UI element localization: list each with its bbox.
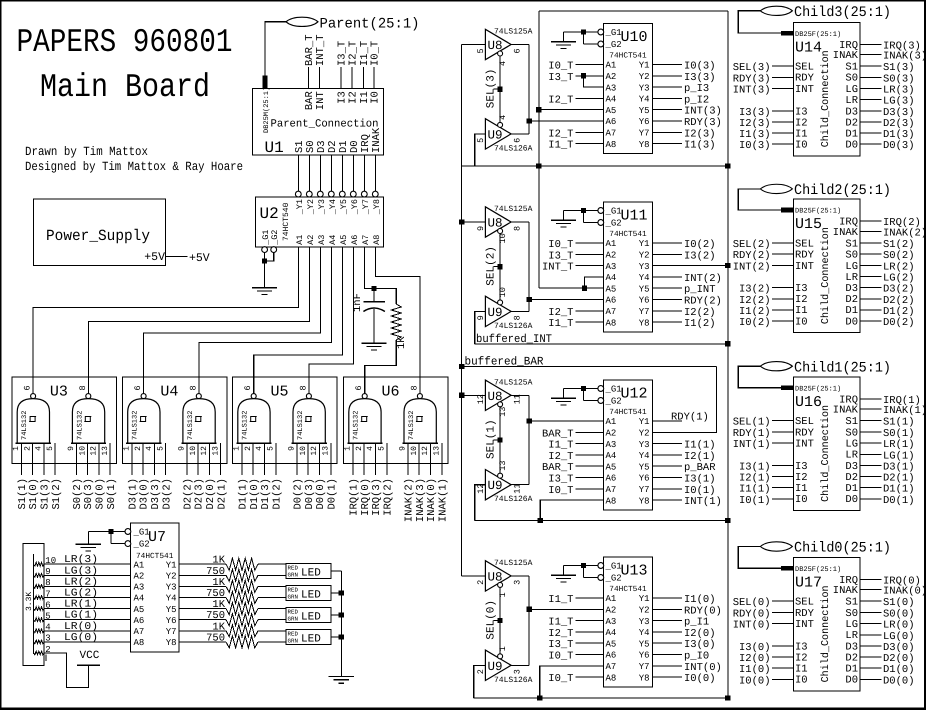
svg-text:I1_T: I1_T	[548, 594, 573, 606]
svg-text:p_I1: p_I1	[684, 617, 709, 629]
svg-text:Y8: Y8	[166, 638, 177, 648]
svg-text:D0(0): D0(0)	[883, 675, 915, 687]
svg-text:S0(3): S0(3)	[83, 478, 95, 510]
svg-text:A8: A8	[372, 235, 382, 245]
svg-text:Y5: Y5	[166, 605, 177, 615]
svg-text:S0(1): S0(1)	[883, 428, 915, 440]
svg-text:750: 750	[206, 632, 225, 644]
svg-text:SEL(2): SEL(2)	[733, 239, 771, 251]
svg-text:_G2: _G2	[270, 230, 280, 246]
svg-text:I0_T: I0_T	[548, 239, 573, 251]
svg-text:D1: D1	[845, 128, 858, 140]
svg-text:1: 1	[498, 646, 508, 651]
svg-text:I2(0): I2(0)	[684, 628, 716, 640]
svg-text:A6: A6	[606, 651, 617, 661]
svg-text:A4: A4	[606, 628, 617, 638]
svg-text:5: 5	[476, 138, 486, 143]
svg-text:6: 6	[513, 48, 523, 53]
svg-text:S1: S1	[845, 597, 858, 609]
svg-text:U2: U2	[260, 205, 279, 223]
svg-text:Y3: Y3	[639, 440, 650, 450]
svg-text:74HCT540: 74HCT540	[282, 202, 291, 241]
svg-text:LG(3): LG(3)	[883, 96, 915, 108]
svg-text:U3: U3	[50, 384, 68, 401]
svg-text:I1(0): I1(0)	[739, 664, 771, 676]
svg-text:_Y3: _Y3	[317, 199, 327, 215]
svg-text:10: 10	[410, 446, 419, 456]
svg-text:A8: A8	[606, 318, 617, 328]
svg-text:S0: S0	[845, 250, 858, 262]
svg-text:D1(2): D1(2)	[271, 478, 283, 510]
svg-text:D3(3): D3(3)	[150, 478, 162, 510]
svg-text:Y5: Y5	[639, 284, 650, 294]
svg-text:1: 1	[498, 592, 508, 597]
svg-text:Y1: Y1	[639, 594, 650, 604]
svg-text:5: 5	[378, 446, 387, 451]
svg-text:74LS132: 74LS132	[242, 411, 250, 440]
svg-text:_Y2: _Y2	[306, 199, 316, 215]
svg-text:D1(3): D1(3)	[260, 478, 272, 510]
svg-text:A7: A7	[606, 485, 617, 495]
svg-text:2: 2	[244, 446, 253, 451]
svg-text:_G2: _G2	[605, 40, 622, 50]
svg-text:INAK(2): INAK(2)	[883, 227, 926, 239]
svg-text:LG(2): LG(2)	[883, 273, 915, 285]
svg-text:I1(2): I1(2)	[739, 306, 771, 318]
svg-text:74LS126A: 74LS126A	[494, 676, 533, 685]
svg-text:_Y7: _Y7	[361, 199, 371, 215]
svg-text:Y5: Y5	[639, 462, 650, 472]
svg-text:S1(3): S1(3)	[40, 478, 52, 510]
svg-text:INT(3): INT(3)	[733, 85, 771, 97]
svg-text:I1: I1	[795, 128, 808, 140]
svg-text:SEL: SEL	[795, 597, 814, 609]
svg-text:p_INT: p_INT	[684, 284, 716, 296]
svg-text:LR: LR	[845, 95, 858, 107]
svg-text:D0(2): D0(2)	[883, 317, 915, 329]
svg-text:D1(0): D1(0)	[883, 664, 915, 676]
svg-text:U9: U9	[488, 660, 503, 674]
svg-text:S0(2): S0(2)	[72, 478, 84, 510]
svg-text:LED: LED	[301, 612, 321, 624]
svg-text:8: 8	[78, 385, 88, 390]
svg-text:I3(0): I3(0)	[684, 639, 716, 651]
svg-text:Y2: Y2	[639, 429, 650, 439]
svg-text:A3: A3	[606, 83, 617, 93]
svg-text:A8: A8	[606, 496, 617, 506]
svg-text:S0(0): S0(0)	[95, 478, 107, 510]
svg-text:INT: INT	[795, 619, 814, 631]
svg-text:A8: A8	[606, 140, 617, 150]
svg-text:RDY(2): RDY(2)	[684, 296, 722, 308]
svg-text:U6: U6	[382, 384, 400, 401]
svg-text:Y4: Y4	[639, 451, 650, 461]
svg-text:74LS126A: 74LS126A	[494, 495, 533, 504]
svg-text:12: 12	[476, 394, 486, 404]
svg-text:I0_T: I0_T	[548, 61, 573, 73]
svg-text:74LS132: 74LS132	[353, 411, 361, 440]
svg-text:S1(1): S1(1)	[17, 478, 29, 510]
svg-text:74LS132: 74LS132	[408, 411, 416, 440]
svg-text:RDY: RDY	[795, 73, 815, 85]
svg-text:INT: INT	[315, 91, 327, 110]
svg-text:S1(2): S1(2)	[51, 478, 63, 510]
svg-text:I1_T: I1_T	[548, 140, 573, 152]
svg-text:S0(2): S0(2)	[883, 250, 915, 262]
svg-text:_G1: _G1	[605, 562, 622, 572]
svg-text:11: 11	[513, 483, 523, 493]
svg-text:GRN: GRN	[288, 572, 299, 579]
svg-text:U13: U13	[621, 563, 648, 580]
svg-text:D3(1): D3(1)	[128, 478, 140, 510]
svg-text:Y3: Y3	[639, 83, 650, 93]
svg-text:INAK: INAK	[833, 227, 859, 239]
svg-text:I0(3): I0(3)	[684, 61, 716, 73]
svg-text:3.3K: 3.3K	[25, 592, 34, 611]
svg-text:A1: A1	[606, 594, 617, 604]
svg-text:LED: LED	[301, 590, 321, 602]
svg-text:I3_T: I3_T	[548, 72, 573, 84]
svg-text:S1(0): S1(0)	[28, 478, 40, 510]
svg-text:4: 4	[145, 446, 154, 451]
svg-text:I0_T: I0_T	[369, 41, 381, 66]
svg-text:A7: A7	[134, 627, 145, 637]
svg-text:A4: A4	[606, 95, 617, 105]
svg-text:U7: U7	[148, 529, 166, 546]
svg-text:S0(0): S0(0)	[883, 608, 915, 620]
svg-text:Y2: Y2	[639, 72, 650, 82]
svg-text:U9: U9	[488, 479, 503, 493]
svg-text:8: 8	[188, 385, 198, 390]
svg-text:I0_T: I0_T	[548, 485, 573, 497]
svg-text:S1: S1	[845, 416, 858, 428]
svg-text:A1: A1	[295, 235, 305, 245]
svg-text:D0(1): D0(1)	[326, 478, 338, 510]
svg-text:p_BAR: p_BAR	[684, 462, 716, 474]
svg-text:A2: A2	[606, 606, 617, 616]
svg-text:RDY(3): RDY(3)	[733, 73, 771, 85]
svg-text:_Y8: _Y8	[372, 199, 382, 215]
svg-text:I3(2): I3(2)	[684, 250, 716, 262]
svg-text:LED: LED	[301, 634, 321, 646]
svg-text:SEL: SEL	[795, 62, 814, 74]
svg-text:5: 5	[476, 48, 486, 53]
svg-text:RDY(2): RDY(2)	[733, 250, 771, 262]
svg-text:RED: RED	[288, 565, 299, 572]
svg-text:Y3: Y3	[639, 617, 650, 627]
svg-text:I0: I0	[795, 316, 808, 328]
svg-text:Y3: Y3	[166, 583, 177, 593]
svg-text:A3: A3	[134, 583, 145, 593]
svg-text:RDY: RDY	[795, 608, 815, 620]
svg-text:S1: S1	[845, 238, 858, 250]
svg-text:LR: LR	[845, 450, 858, 462]
svg-text:INAK: INAK	[833, 50, 859, 62]
svg-text:SEL(3): SEL(3)	[486, 69, 498, 109]
svg-text:A5: A5	[606, 639, 617, 649]
svg-text:74HCT541: 74HCT541	[609, 408, 647, 417]
svg-text:I1: I1	[795, 664, 808, 676]
svg-text:A1: A1	[606, 239, 617, 249]
svg-text:S0: S0	[845, 608, 858, 620]
svg-text:9: 9	[399, 446, 408, 451]
svg-text:INT(3): INT(3)	[684, 106, 722, 118]
svg-text:INT(1): INT(1)	[684, 496, 722, 508]
svg-text:I2(2): I2(2)	[684, 307, 716, 319]
svg-text:A4: A4	[606, 273, 617, 283]
svg-text:D1: D1	[845, 483, 858, 495]
svg-text:Y6: Y6	[639, 117, 650, 127]
svg-text:10: 10	[78, 446, 87, 456]
svg-text:RDY: RDY	[795, 250, 815, 262]
svg-text:12: 12	[421, 446, 430, 456]
svg-text:2: 2	[476, 580, 486, 585]
svg-text:INT_T: INT_T	[542, 262, 574, 274]
svg-text:_G2: _G2	[605, 397, 622, 407]
svg-text:Y4: Y4	[639, 628, 650, 638]
svg-text:A2: A2	[134, 572, 145, 582]
svg-text:S1(2): S1(2)	[883, 239, 915, 251]
svg-text:I3_T: I3_T	[548, 250, 573, 262]
svg-text:Child_Connection: Child_Connection	[820, 227, 832, 324]
svg-text:SEL(1): SEL(1)	[486, 419, 498, 459]
svg-text:DB25F(25:1): DB25F(25:1)	[795, 30, 841, 39]
svg-text:_G2: _G2	[605, 574, 622, 584]
svg-text:5: 5	[267, 446, 276, 451]
svg-text:A4: A4	[328, 235, 338, 245]
svg-text:A5: A5	[134, 605, 145, 615]
svg-text:INAK: INAK	[833, 405, 859, 417]
svg-text:Child0(25:1): Child0(25:1)	[794, 541, 891, 557]
svg-text:I1(0): I1(0)	[684, 594, 716, 606]
svg-text:74LS126A: 74LS126A	[494, 322, 533, 331]
svg-text:A1: A1	[606, 61, 617, 71]
svg-text:Y7: Y7	[639, 662, 650, 672]
svg-text:RED: RED	[288, 587, 299, 594]
svg-text:GRN: GRN	[288, 616, 299, 623]
svg-text:S1(0): S1(0)	[883, 597, 915, 609]
svg-text:LG(1): LG(1)	[883, 450, 915, 462]
svg-text:U16: U16	[795, 394, 822, 411]
svg-text:+5V: +5V	[189, 252, 210, 265]
svg-text:D2(1): D2(1)	[216, 478, 228, 510]
svg-text:9: 9	[288, 446, 297, 451]
svg-text:8: 8	[513, 226, 523, 231]
svg-text:I1: I1	[795, 305, 808, 317]
svg-text:9: 9	[476, 226, 486, 231]
svg-text:2: 2	[355, 446, 364, 451]
svg-text:RED: RED	[288, 609, 299, 616]
svg-text:A1: A1	[606, 417, 617, 427]
svg-text:INT(2): INT(2)	[684, 273, 722, 285]
svg-text:Y2: Y2	[166, 572, 177, 582]
svg-text:INAK(1): INAK(1)	[437, 478, 449, 522]
svg-text:U1: U1	[265, 139, 284, 157]
svg-text:D2(2): D2(2)	[183, 478, 195, 510]
svg-text:Y7: Y7	[639, 307, 650, 317]
svg-text:10: 10	[498, 233, 508, 243]
svg-text:12: 12	[90, 446, 99, 456]
svg-text:RDY: RDY	[795, 427, 815, 439]
svg-text:2: 2	[134, 446, 143, 451]
svg-text:+5V: +5V	[144, 251, 165, 264]
svg-text:Y2: Y2	[639, 251, 650, 261]
svg-text:SEL: SEL	[795, 238, 814, 250]
svg-text:I1: I1	[795, 483, 808, 495]
svg-text:BAR: BAR	[304, 91, 316, 111]
svg-text:D1(0): D1(0)	[249, 478, 261, 510]
svg-text:SEL(1): SEL(1)	[733, 417, 771, 429]
svg-text:Y7: Y7	[166, 627, 177, 637]
svg-text:_G1: _G1	[605, 207, 622, 217]
svg-text:Y3: Y3	[639, 262, 650, 272]
svg-text:74LS126A: 74LS126A	[494, 144, 533, 153]
svg-text:DB25F(25:1): DB25F(25:1)	[795, 384, 841, 393]
svg-text:A6: A6	[606, 296, 617, 306]
svg-text:RDY(3): RDY(3)	[684, 117, 722, 129]
svg-text:D1(3): D1(3)	[883, 129, 915, 141]
svg-text:INAK(3): INAK(3)	[415, 478, 427, 522]
svg-text:D1(1): D1(1)	[238, 478, 250, 510]
svg-text:I0(2): I0(2)	[684, 239, 716, 251]
svg-text:LR: LR	[845, 272, 858, 284]
svg-text:INAK(1): INAK(1)	[883, 405, 926, 417]
svg-text:INT(0): INT(0)	[684, 662, 722, 674]
svg-text:I0_T: I0_T	[548, 651, 573, 663]
svg-text:D0(1): D0(1)	[883, 495, 915, 507]
svg-text:A3: A3	[606, 440, 617, 450]
svg-text:13: 13	[498, 407, 508, 417]
svg-text:9: 9	[67, 446, 76, 451]
svg-text:I0: I0	[369, 91, 381, 104]
svg-text:D3(0): D3(0)	[139, 478, 151, 510]
svg-text:Y4: Y4	[639, 95, 650, 105]
svg-text:IRQ(0): IRQ(0)	[360, 478, 372, 516]
svg-text:LR: LR	[845, 630, 858, 642]
svg-text:_G2: _G2	[605, 219, 622, 229]
svg-text:Power_Supply: Power_Supply	[46, 227, 150, 245]
svg-text:A3: A3	[606, 262, 617, 272]
svg-text:I2_T: I2_T	[548, 307, 573, 319]
svg-text:Y6: Y6	[639, 474, 650, 484]
svg-text:LG(0): LG(0)	[64, 632, 98, 644]
svg-text:74LS132: 74LS132	[76, 411, 84, 440]
svg-text:9: 9	[178, 446, 187, 451]
svg-text:A6: A6	[606, 117, 617, 127]
svg-text:I3(3): I3(3)	[684, 72, 716, 84]
svg-text:A6: A6	[134, 616, 145, 626]
svg-text:SEL: SEL	[795, 416, 814, 428]
svg-text:Y6: Y6	[166, 616, 177, 626]
svg-text:4: 4	[498, 61, 508, 66]
svg-text:A2: A2	[606, 72, 617, 82]
svg-text:I1(2): I1(2)	[684, 318, 716, 330]
svg-text:A6: A6	[350, 235, 360, 245]
svg-text:Child_Connection: Child_Connection	[820, 50, 832, 147]
svg-text:A2: A2	[606, 251, 617, 261]
svg-text:I0(0): I0(0)	[684, 673, 716, 685]
svg-text:INAK(3): INAK(3)	[883, 51, 926, 63]
svg-text:_Y4: _Y4	[328, 199, 338, 215]
svg-text:I0(1): I0(1)	[684, 485, 716, 497]
svg-text:74LS125A: 74LS125A	[494, 559, 533, 568]
svg-text:I2(1): I2(1)	[684, 451, 716, 463]
svg-text:74LS125A: 74LS125A	[494, 28, 533, 37]
svg-text:A4: A4	[134, 594, 145, 604]
svg-text:GRN: GRN	[288, 594, 299, 601]
svg-text:D0(2): D0(2)	[293, 478, 305, 510]
svg-text:D0: D0	[845, 316, 858, 328]
svg-text:6: 6	[243, 385, 253, 390]
svg-text:SEL(0): SEL(0)	[733, 597, 771, 609]
svg-text:INT: INT	[795, 439, 814, 451]
svg-text:I2_T: I2_T	[548, 628, 573, 640]
svg-text:A5: A5	[606, 106, 617, 116]
svg-text:SEL(0): SEL(0)	[486, 600, 498, 640]
svg-text:D0(3): D0(3)	[304, 478, 316, 510]
svg-text:D2(3): D2(3)	[194, 478, 206, 510]
svg-text:12: 12	[310, 446, 319, 456]
svg-text:I0(2): I0(2)	[739, 317, 771, 329]
svg-text:DB25F(25:1): DB25F(25:1)	[795, 565, 841, 574]
svg-text:11: 11	[513, 394, 523, 404]
svg-text:D0: D0	[845, 675, 858, 687]
svg-text:U11: U11	[621, 208, 648, 225]
svg-text:A3: A3	[606, 617, 617, 627]
svg-text:RDY(1): RDY(1)	[733, 428, 771, 440]
svg-text:1K: 1K	[396, 336, 408, 349]
svg-text:74HCT541: 74HCT541	[609, 585, 647, 594]
svg-text:A5: A5	[339, 235, 349, 245]
svg-text:I2_T: I2_T	[548, 94, 573, 106]
svg-text:Y1: Y1	[166, 560, 177, 570]
svg-text:3: 3	[513, 669, 523, 674]
svg-text:buffered_BAR: buffered_BAR	[465, 356, 544, 369]
svg-text:Y8: Y8	[639, 496, 650, 506]
svg-text:I3: I3	[336, 91, 348, 104]
svg-text:p_I3: p_I3	[684, 83, 709, 95]
svg-text:Child3(25:1): Child3(25:1)	[794, 5, 891, 21]
svg-text:I3_T: I3_T	[336, 41, 348, 66]
svg-text:Y1: Y1	[639, 61, 650, 71]
svg-text:4: 4	[255, 446, 264, 451]
svg-text:A7: A7	[606, 129, 617, 139]
svg-text:D1(2): D1(2)	[883, 306, 915, 318]
svg-text:_G1: _G1	[605, 385, 622, 395]
svg-text:13: 13	[322, 446, 331, 456]
svg-text:74LS125A: 74LS125A	[494, 378, 533, 387]
svg-text:Drawn by Tim Mattox: Drawn by Tim Mattox	[25, 145, 148, 159]
svg-text:INT: INT	[795, 261, 814, 273]
svg-text:Y2: Y2	[639, 606, 650, 616]
svg-text:13: 13	[498, 460, 508, 470]
svg-text:I1_T: I1_T	[548, 318, 573, 330]
svg-text:Child2(25:1): Child2(25:1)	[794, 183, 891, 199]
svg-text:INT_T: INT_T	[315, 34, 327, 66]
svg-text:12: 12	[200, 446, 209, 456]
svg-text:Designed by Tim Mattox & Ray H: Designed by Tim Mattox & Ray Hoare	[25, 160, 243, 174]
svg-text:13: 13	[101, 446, 110, 456]
svg-text:9: 9	[476, 315, 486, 320]
svg-text:8: 8	[513, 315, 523, 320]
svg-text:Child_Connection: Child_Connection	[820, 585, 832, 682]
svg-text:5: 5	[156, 446, 165, 451]
svg-text:U15: U15	[795, 216, 822, 233]
svg-text:I0: I0	[795, 494, 808, 506]
svg-text:I1(1): I1(1)	[739, 484, 771, 496]
svg-text:A7: A7	[606, 662, 617, 672]
svg-text:74LS132: 74LS132	[21, 411, 29, 440]
